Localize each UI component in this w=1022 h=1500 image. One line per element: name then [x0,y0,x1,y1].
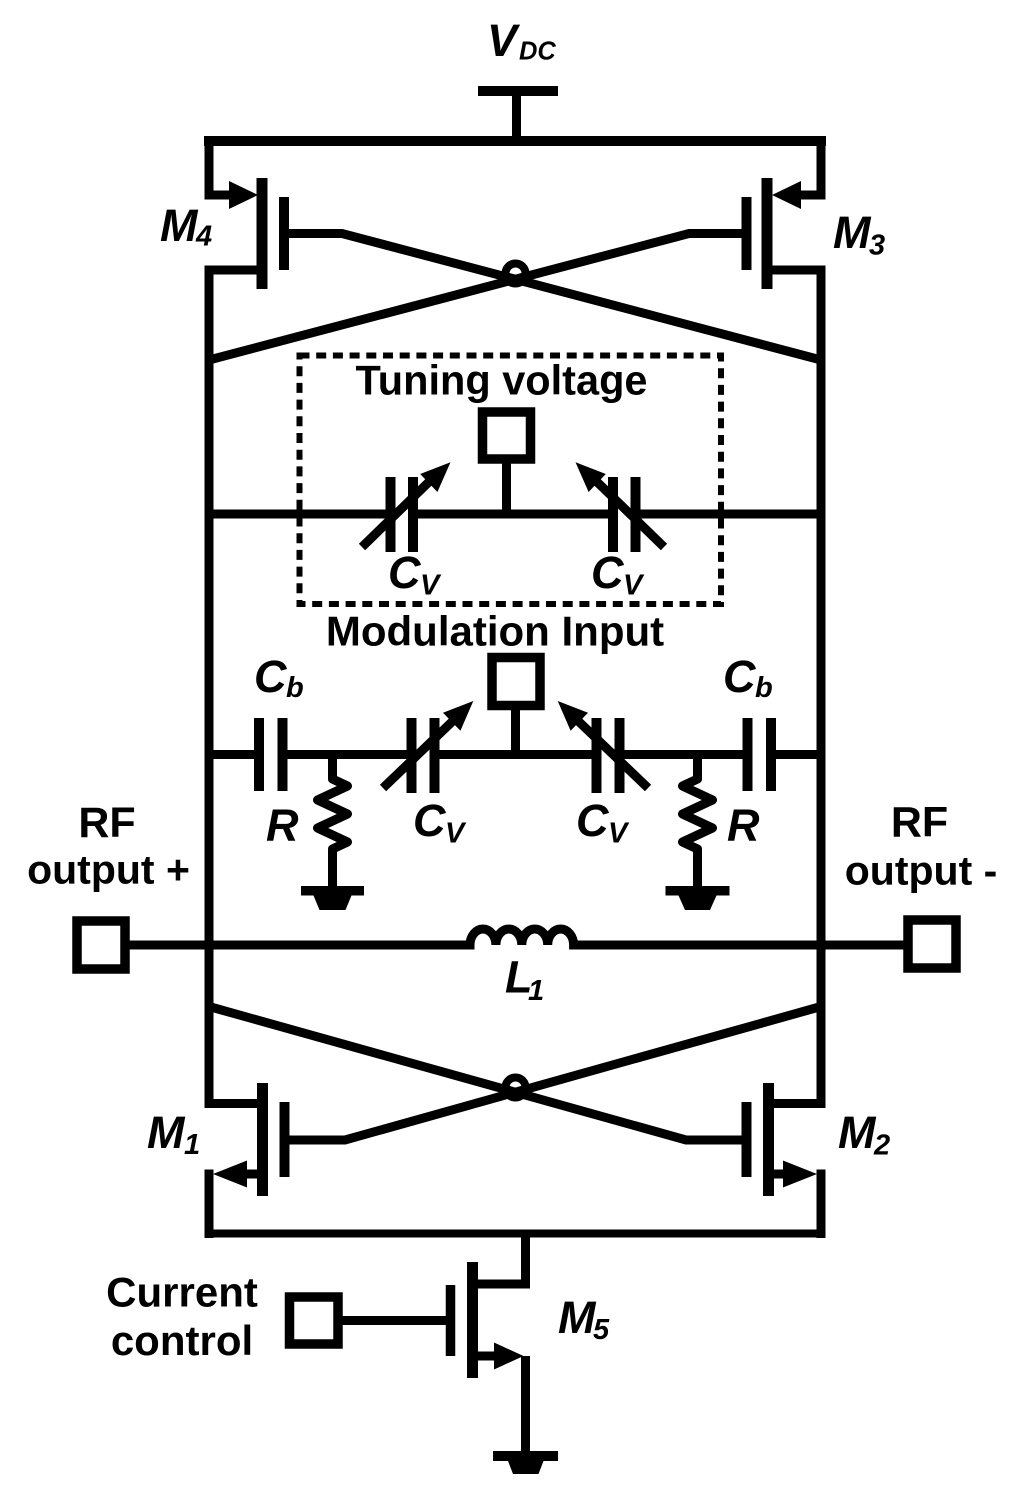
wire RF line with inductor L1 [125,929,908,945]
wire right rail middle [817,266,826,1109]
label RF output - [845,799,998,894]
svg-text:2: 2 [873,1130,890,1162]
terminal RF output - square [908,920,956,968]
wire top rail [204,136,826,146]
label M2 [838,1107,890,1162]
svg-text:b: b [755,672,773,704]
label RF output + [27,799,190,893]
wire M2 gate cross-couple to left rail [209,1007,742,1141]
label Cb left [254,651,304,704]
terminal RF output + square [77,921,125,969]
wire right rail lower [817,1170,826,1239]
svg-text:b: b [286,672,304,704]
label CV modulation right [576,795,630,850]
label CV tuning right [591,547,645,602]
svg-text:1: 1 [528,975,544,1007]
varactor CV modulation left [383,701,473,793]
svg-text:V: V [487,15,521,66]
wire tuning line [209,510,821,519]
svg-text:RF: RF [891,799,948,847]
label CV modulation left [413,795,467,850]
wire bottom rail [205,1230,825,1238]
power VDC bar [478,86,558,96]
terminal tuning voltage square [483,412,531,459]
terminal current control square [290,1297,339,1344]
ground M5 [493,1451,558,1474]
wire current control [338,1316,446,1325]
ground right [666,886,730,910]
node crossover hop top [506,264,526,284]
svg-text:V: V [623,570,645,602]
label Current control [106,1269,258,1365]
svg-text:M: M [160,200,199,251]
svg-text:Tuning voltage: Tuning voltage [355,357,647,404]
svg-text:M: M [838,1107,877,1158]
svg-text:RF: RF [78,799,135,847]
wire VDC stem [512,96,521,141]
svg-text:C: C [723,651,757,702]
label M4 [160,200,212,253]
svg-text:C: C [388,547,422,598]
resistor R left [318,755,348,889]
transistor M1 [209,1083,285,1196]
wire tuning stem [502,459,511,514]
svg-text:Modulation Input: Modulation Input [326,608,664,655]
label M3 [833,207,885,262]
svg-text:DC: DC [519,38,556,66]
svg-text:V: V [445,818,467,850]
svg-text:C: C [254,651,288,702]
svg-text:V: V [420,570,442,602]
transistor M5 [451,1234,526,1456]
transistor M4 [209,178,284,289]
label CV tuning left [388,547,442,602]
wire left rail lower [205,1170,214,1239]
svg-text:4: 4 [195,221,212,253]
label L1 [505,952,544,1008]
wire M1 gate cross-couple to right rail [289,1007,821,1141]
svg-text:1: 1 [184,1129,200,1161]
svg-text:C: C [576,795,610,846]
varactor CV tuning left [362,462,451,552]
transistor M2 [747,1083,822,1196]
varactor CV modulation right [558,701,648,793]
wire M4 gate cross-couple to right rail [284,234,821,361]
svg-text:R: R [266,800,299,851]
svg-text:C: C [591,547,625,598]
label Cb right [723,651,773,704]
svg-text:M: M [147,1107,186,1158]
tuning dashed box [300,356,722,605]
svg-text:V: V [608,818,630,850]
wire M3 gate cross-couple to left rail [209,234,747,361]
capacitor Cb left [259,718,283,791]
wire left rail upper [205,136,214,200]
node crossover hop bottom [506,1078,526,1098]
terminal modulation input square [492,658,540,706]
label M5 [558,1292,610,1346]
svg-text:M: M [558,1292,597,1343]
node VDC label [487,15,556,66]
svg-text:Current: Current [106,1269,258,1316]
transistor M3 [747,178,822,289]
svg-text:control: control [111,1317,253,1364]
svg-text:M: M [833,207,872,258]
resistor R right [683,755,713,889]
ground left [301,886,364,910]
varactor CV tuning right [576,462,665,552]
wire modulation line [209,750,821,759]
wire left rail middle [205,266,214,1109]
wire right rail upper [817,136,826,200]
svg-text:3: 3 [869,230,885,262]
svg-text:C: C [413,795,447,846]
wire modulation stem [511,706,520,755]
svg-text:output -: output - [845,848,998,894]
svg-text:output +: output + [27,847,190,893]
svg-text:R: R [727,800,760,851]
label M1 [147,1107,200,1161]
capacitor Cb right [748,718,772,791]
svg-text:5: 5 [593,1314,610,1346]
